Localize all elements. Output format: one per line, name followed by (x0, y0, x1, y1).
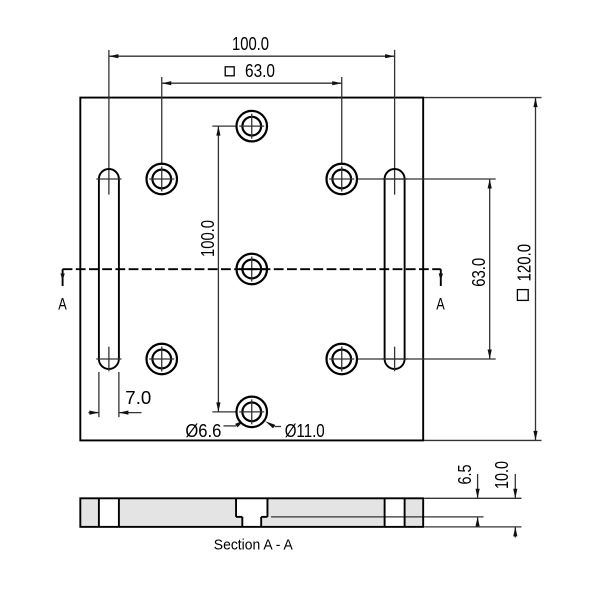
svg-text:Section A - A: Section A - A (214, 538, 293, 554)
svg-text:Ø11.0: Ø11.0 (285, 421, 325, 441)
svg-text:A: A (58, 294, 67, 313)
svg-text:100.0: 100.0 (232, 34, 269, 54)
svg-text:63.0: 63.0 (245, 61, 275, 81)
svg-text:A: A (436, 295, 445, 314)
svg-text:Ø6.6: Ø6.6 (185, 421, 221, 441)
svg-text:63.0: 63.0 (469, 258, 489, 287)
svg-text:10.0: 10.0 (492, 461, 512, 489)
svg-text:7.0: 7.0 (125, 388, 151, 408)
svg-text:6.5: 6.5 (455, 465, 475, 485)
svg-text:120.0: 120.0 (514, 244, 534, 282)
svg-text:100.0: 100.0 (198, 220, 218, 257)
